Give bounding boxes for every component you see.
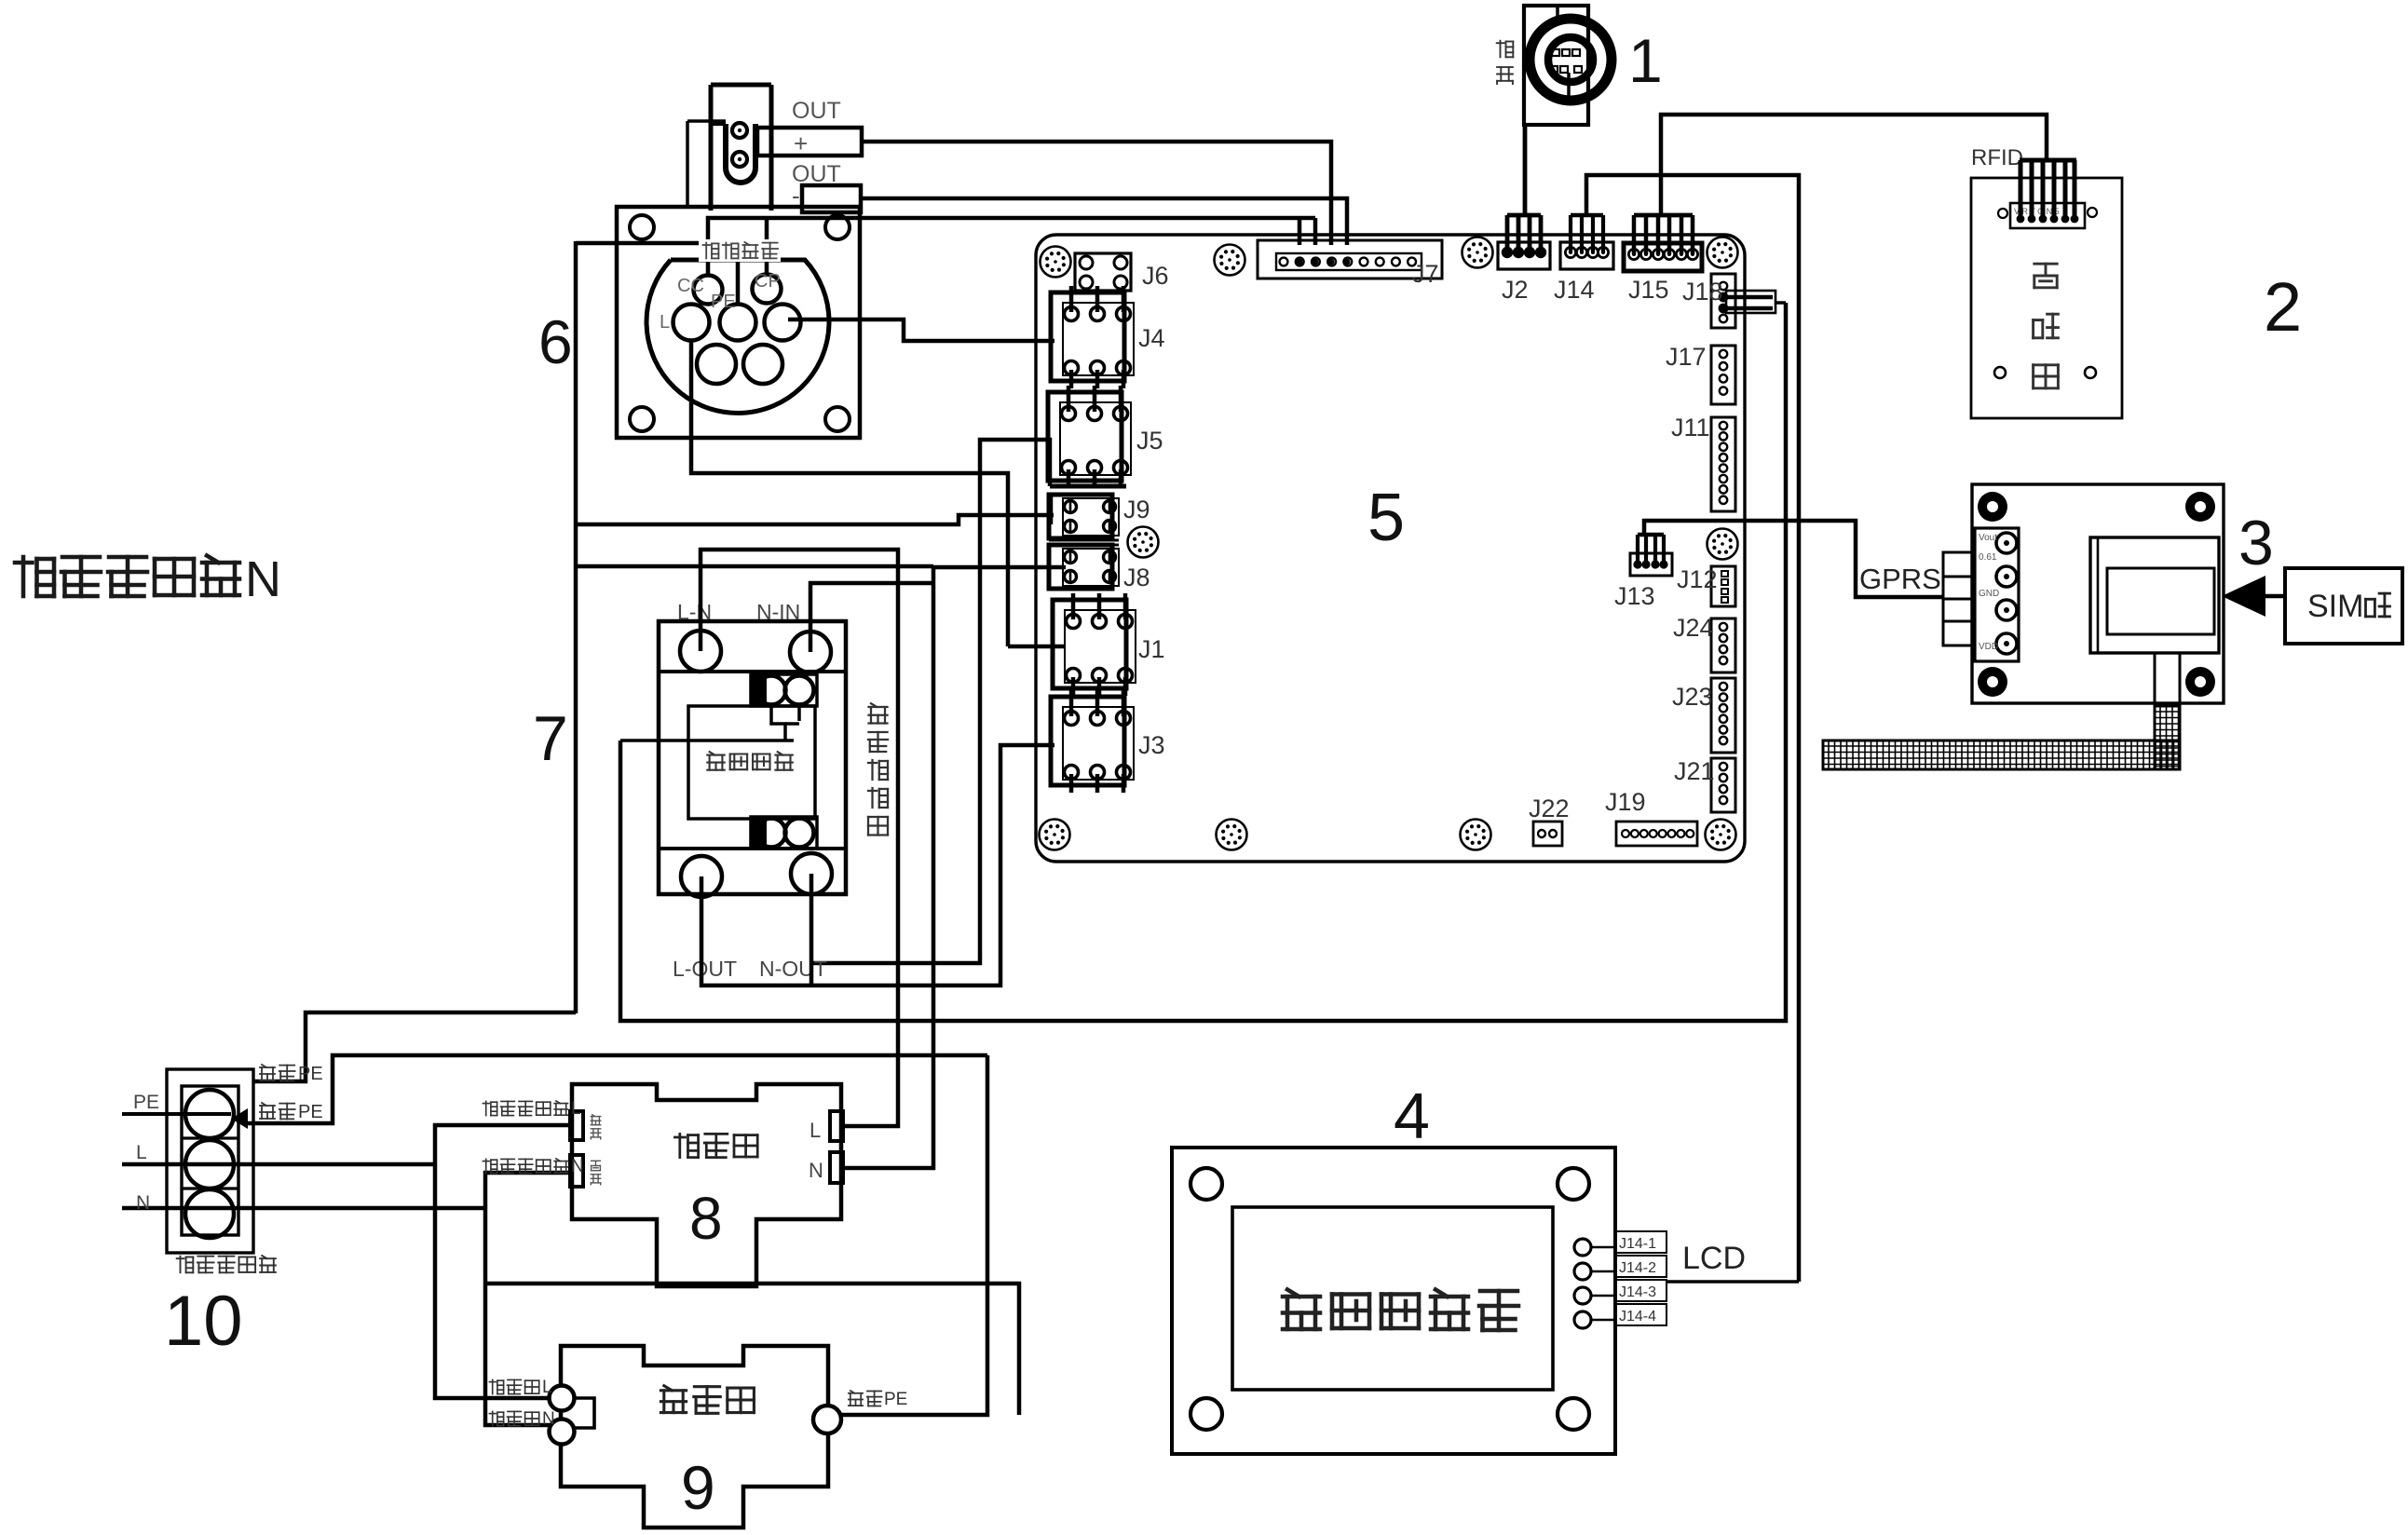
svg-text:L: L [660,312,670,333]
wire L lead to breaker junction [122,1162,435,1167]
mount hole top-right [1707,238,1738,268]
svg-text:RFID: RFID [1971,145,2023,170]
svg-text:10: 10 [164,1282,243,1361]
meter lcd caption [707,752,724,770]
meter body [659,621,846,894]
wire J13 to GPRS module [1644,521,1943,597]
surge terminal jumper [575,1398,594,1428]
wire J18 to meter LCD line [1775,301,1786,305]
connector J9 [1049,495,1112,538]
e-stop bracket inner stub [1556,6,1559,17]
socket pin DC2 [743,345,782,384]
label 急停 [1497,41,1514,58]
mount hole bottom-mid [1217,820,1247,850]
mount hole mid-right [1707,529,1738,560]
connector J4 [1051,292,1124,381]
J18 link resistor [1726,291,1775,313]
svg-text:PE: PE [298,1064,323,1084]
wire J2 to emergency stop [1523,125,1528,215]
reader board [1971,178,2122,418]
svg-text:9: 9 [681,1453,715,1522]
meter enclosure (module 7) top edge / wire to J8 [576,564,933,569]
wire lcd to J14 riser [1667,1280,1799,1284]
connector J23 [1711,678,1735,753]
wire OUT+ to J7 pin4 [862,142,1331,245]
connector J1 [1053,600,1126,688]
svg-text:8: 8 [689,1185,723,1252]
svg-text:L-N: L-N [677,600,712,624]
socket terminal pin OUT- [732,152,747,167]
lcd hole top-left [1190,1168,1222,1200]
box outline around socket (module 6) left edge shared with meter box [574,241,578,1013]
wire 上孔 to junction [435,1125,570,1398]
socket cable housing left wall [709,85,714,211]
J5 bottom pins bar [1050,484,1126,489]
wire CT to left [620,739,794,742]
vertical caption 多功能电表 [869,703,888,723]
wire to J8 [933,565,1066,570]
svg-text:5: 5 [1367,481,1405,555]
e-stop bracket [1524,6,1588,125]
J7 stub b [1313,218,1318,245]
gprs mount hole [2185,667,2215,697]
labels 接线端子排L/N [483,1101,497,1115]
CP pin stem [765,218,769,275]
wire L to J1 [1008,645,1066,649]
svg-text:J14-4: J14-4 [1619,1309,1656,1324]
reader connector strip [2010,203,2085,228]
svg-text:PE: PE [298,1102,323,1122]
breaker L terminal [830,1111,843,1141]
lcd connector pins [1574,1239,1591,1256]
svg-text:J8: J8 [1123,564,1150,591]
terminal PE [185,1090,234,1138]
gprs terminal block [1975,528,2019,661]
svg-text:N: N [542,1409,555,1429]
connector J22 [1533,822,1562,846]
connector J5 [1048,392,1122,481]
left caption 接线端子棒N [15,557,54,596]
svg-text:N-IN: N-IN [756,600,800,624]
connector J11 [1711,417,1735,511]
lcd outer frame [1172,1148,1615,1454]
wire L-N input riser to breaker L [701,550,898,1126]
J7 stub a [1298,218,1302,245]
svg-text:0.61: 0.61 [1979,552,1997,563]
svg-text:L: L [542,1378,552,1397]
surge terminal 断路器L [550,1386,575,1411]
mount hole bottom-left [1040,820,1070,850]
strip side hole left [1998,209,2007,218]
socket pin PE [720,305,756,341]
wire meter LCD to J18 line [620,303,1786,1021]
label 上孔 [591,1115,600,1125]
connector J3 [1051,697,1124,785]
wire PE lead-in [122,1112,231,1116]
reader hole bottom-right [2085,367,2096,378]
J9 top bar [1051,495,1114,524]
svg-text:J15: J15 [1628,276,1669,304]
reader hole bottom-left [1994,367,2006,378]
flex ribbon stub [2155,653,2180,706]
meter terminal N-IN [790,632,831,672]
svg-text:PE: PE [711,292,736,312]
double bar between J9 and J8 [1049,539,1119,542]
svg-text:J14-1: J14-1 [1619,1236,1656,1252]
reader caption 读卡器 (vertical) [2034,264,2057,288]
svg-text:OUT: OUT [792,98,841,124]
meter enclosure right edge / N riser to breaker N [841,566,933,1168]
mount hole mid-left [1128,527,1159,558]
lcd screen [1232,1207,1553,1390]
strip side hole right [2088,208,2097,217]
svg-text:CP: CP [755,271,781,292]
wire socket N-pin to J4 [788,319,1054,341]
svg-text:J14-3: J14-3 [1619,1284,1656,1300]
e-stop outer ring [1530,19,1612,101]
svg-text:GPRS: GPRS [1859,563,1941,595]
connector J14 [1560,242,1613,269]
meter terminal N-OUT [791,853,832,894]
terminal block outer [167,1069,253,1253]
SIM holder [2090,537,2219,653]
svg-text:J18: J18 [1682,278,1723,306]
svg-text:J5: J5 [1136,427,1163,455]
housing inner stub [710,122,726,126]
module 6 bottom edge / wire to J9 [576,515,1054,524]
meter CT box upper [751,674,817,706]
SIM card box [2285,568,2402,644]
CT wires [771,704,785,740]
socket title 充电插座 [699,239,781,262]
svg-text:J12: J12 [1677,565,1718,593]
PE drop to surge protector [841,1055,987,1415]
connector J19 [1616,822,1697,846]
e-stop contact block [1552,49,1559,56]
surge terminal 断路器N [550,1420,575,1445]
svg-text:J6: J6 [1142,262,1169,290]
mount hole top-mid [1215,245,1245,276]
gprs board [1972,484,2224,703]
mount hole top-left [1041,247,1071,278]
plate corner hole top-right [825,215,850,239]
housing side stub wire horizontal [687,119,726,123]
terminal L [185,1140,234,1189]
svg-text:2: 2 [2264,268,2302,346]
breaker N terminal [830,1152,843,1183]
socket mounting plate [617,207,860,438]
svg-text:PE: PE [133,1092,159,1113]
wire socket L-pin down to J1 [691,340,1008,646]
svg-text:J13: J13 [1614,582,1655,610]
svg-text:J4: J4 [1138,324,1165,352]
防雷PE trunk line [245,1055,987,1123]
socket terminal pin OUT+ [732,123,747,138]
mount hole top-right-mid [1462,238,1493,268]
connector J18 [1711,274,1735,328]
wire J15 to RFID reader [1661,115,2047,215]
meter terminal L-N [680,631,721,672]
gprs mount hole [2185,492,2215,522]
svg-text:N-OUT: N-OUT [759,957,827,981]
socket pin N [765,305,801,341]
svg-text:J9: J9 [1123,496,1150,523]
svg-text:+: + [794,129,808,157]
lcd hole bottom-left [1190,1398,1222,1430]
svg-text:J14-2: J14-2 [1619,1260,1656,1276]
svg-text:J11: J11 [1671,414,1710,441]
connector J8 [1049,545,1112,589]
gprs mount hole [1978,667,2007,697]
J13 bracket bar [1638,533,1664,537]
breaker 下孔 terminal [570,1155,583,1187]
wire J14 to LCD connector [1586,175,1799,1282]
svg-text:7: 7 [533,703,568,774]
J2 bracket bar [1507,213,1541,218]
PE arrow [231,1108,248,1129]
svg-text:N: N [571,1157,584,1176]
breaker-N to surge link [485,1284,1019,1415]
svg-text:J21: J21 [1674,757,1715,785]
J14 bracket bar [1571,213,1603,218]
J15 bracket bar [1634,213,1693,218]
svg-text:6: 6 [538,307,573,376]
breaker 上孔 terminal [570,1111,583,1140]
wire 下孔 to junction [485,1173,570,1425]
wire from J5 pins bar down via riser [811,440,1050,963]
terminal N [185,1189,234,1238]
caption 防雷器 [660,1386,686,1413]
gprs mount hole [1978,492,2007,522]
connector J7 [1258,240,1442,278]
wire N-IN riser top [810,583,933,652]
svg-text:L: L [571,1099,581,1119]
svg-text:N: N [809,1159,823,1182]
svg-text:J7: J7 [1412,260,1439,288]
svg-text:SIM: SIM [2307,589,2363,624]
connector J6 [1075,253,1131,291]
plate corner hole bottom-left [630,407,654,431]
connector J15 [1624,243,1702,271]
svg-text:J2: J2 [1502,276,1529,304]
CC/CP bus bar over socket [708,218,1315,276]
caption 液晶显示屏 [1283,1290,1320,1330]
reader bus bar [2020,158,2076,163]
mount hole bottom-right-mid [1461,820,1491,850]
label 下孔 [592,1161,601,1170]
meter LCD window [688,706,815,819]
gprs left bracket [1943,552,1975,645]
e-stop inner ring [1548,37,1593,82]
svg-text:J22: J22 [1529,795,1570,822]
SIM arrow [2222,576,2265,617]
wire arrow to SIM box [2265,594,2285,599]
lcd hole bottom-right [1558,1398,1589,1430]
wire N lead to junction [122,1206,485,1211]
flex ribbon hatched [2155,706,2180,769]
svg-text:J1: J1 [1138,635,1165,663]
wire socket PE to terminal block (插座PE) [253,1012,576,1081]
meter CT box lower [751,817,817,849]
socket cable housing top [711,83,771,88]
svg-text:J23: J23 [1672,683,1713,711]
socket face circle [646,260,829,413]
surge terminal 防雷PE [813,1406,841,1433]
svg-text:J14: J14 [1554,276,1595,304]
svg-text:J17: J17 [1666,343,1707,371]
meter terminal L-OUT [681,856,722,897]
connector J21 [1711,758,1735,812]
svg-text:L-OUT: L-OUT [673,957,737,981]
meter top band line [659,670,846,673]
svg-text:4: 4 [1394,1080,1430,1152]
lcd hole top-right [1558,1168,1589,1200]
connector J12 [1711,566,1735,606]
plate corner hole top-left [630,215,654,239]
socket pin CP [753,275,782,304]
wire L-OUT to J3 [701,745,1054,985]
mount hole bottom-right [1706,820,1736,850]
terminal lug OUT+ [757,128,862,156]
svg-text:PE: PE [884,1390,907,1409]
caption 断路器 [674,1134,698,1157]
svg-text:VDD: VDD [1979,642,1998,652]
socket housing U-loop [726,124,755,183]
svg-text:1: 1 [1628,26,1663,95]
connector J17 [1711,346,1735,404]
svg-text:J24: J24 [1673,614,1714,642]
socket pin DC1 [697,345,736,384]
svg-text:3: 3 [2238,508,2274,578]
svg-text:J19: J19 [1605,788,1646,816]
svg-text:L: L [136,1142,147,1163]
wire OUT- to J7 pin5 [861,198,1347,245]
svg-text:Vout: Vout [1979,533,1997,543]
wire N-OUT stem [809,874,814,985]
label 卡 [2366,593,2390,617]
caption 接线端子排 [177,1257,194,1273]
svg-text:J3: J3 [1138,731,1165,759]
plate corner hole bottom-right [825,407,850,431]
housing side stub wire vertical [686,121,689,207]
terminal lug OUT- [802,185,861,212]
connector J13 [1630,553,1672,576]
terminal block inner [182,1086,238,1235]
meter bottom band line [659,847,846,850]
svg-text:N: N [245,551,281,607]
svg-text:LCD: LCD [1682,1241,1746,1276]
PE pin riser [576,243,738,305]
svg-text:CC: CC [677,276,704,296]
socket pin L [673,305,710,341]
socket cable housing right wall [769,85,774,211]
socket pin CC [694,276,723,305]
svg-text:L: L [809,1119,821,1142]
svg-text:N: N [136,1192,150,1214]
connector J2 [1498,242,1550,269]
connector J24 [1711,618,1735,672]
svg-text:GND: GND [1979,589,1999,599]
